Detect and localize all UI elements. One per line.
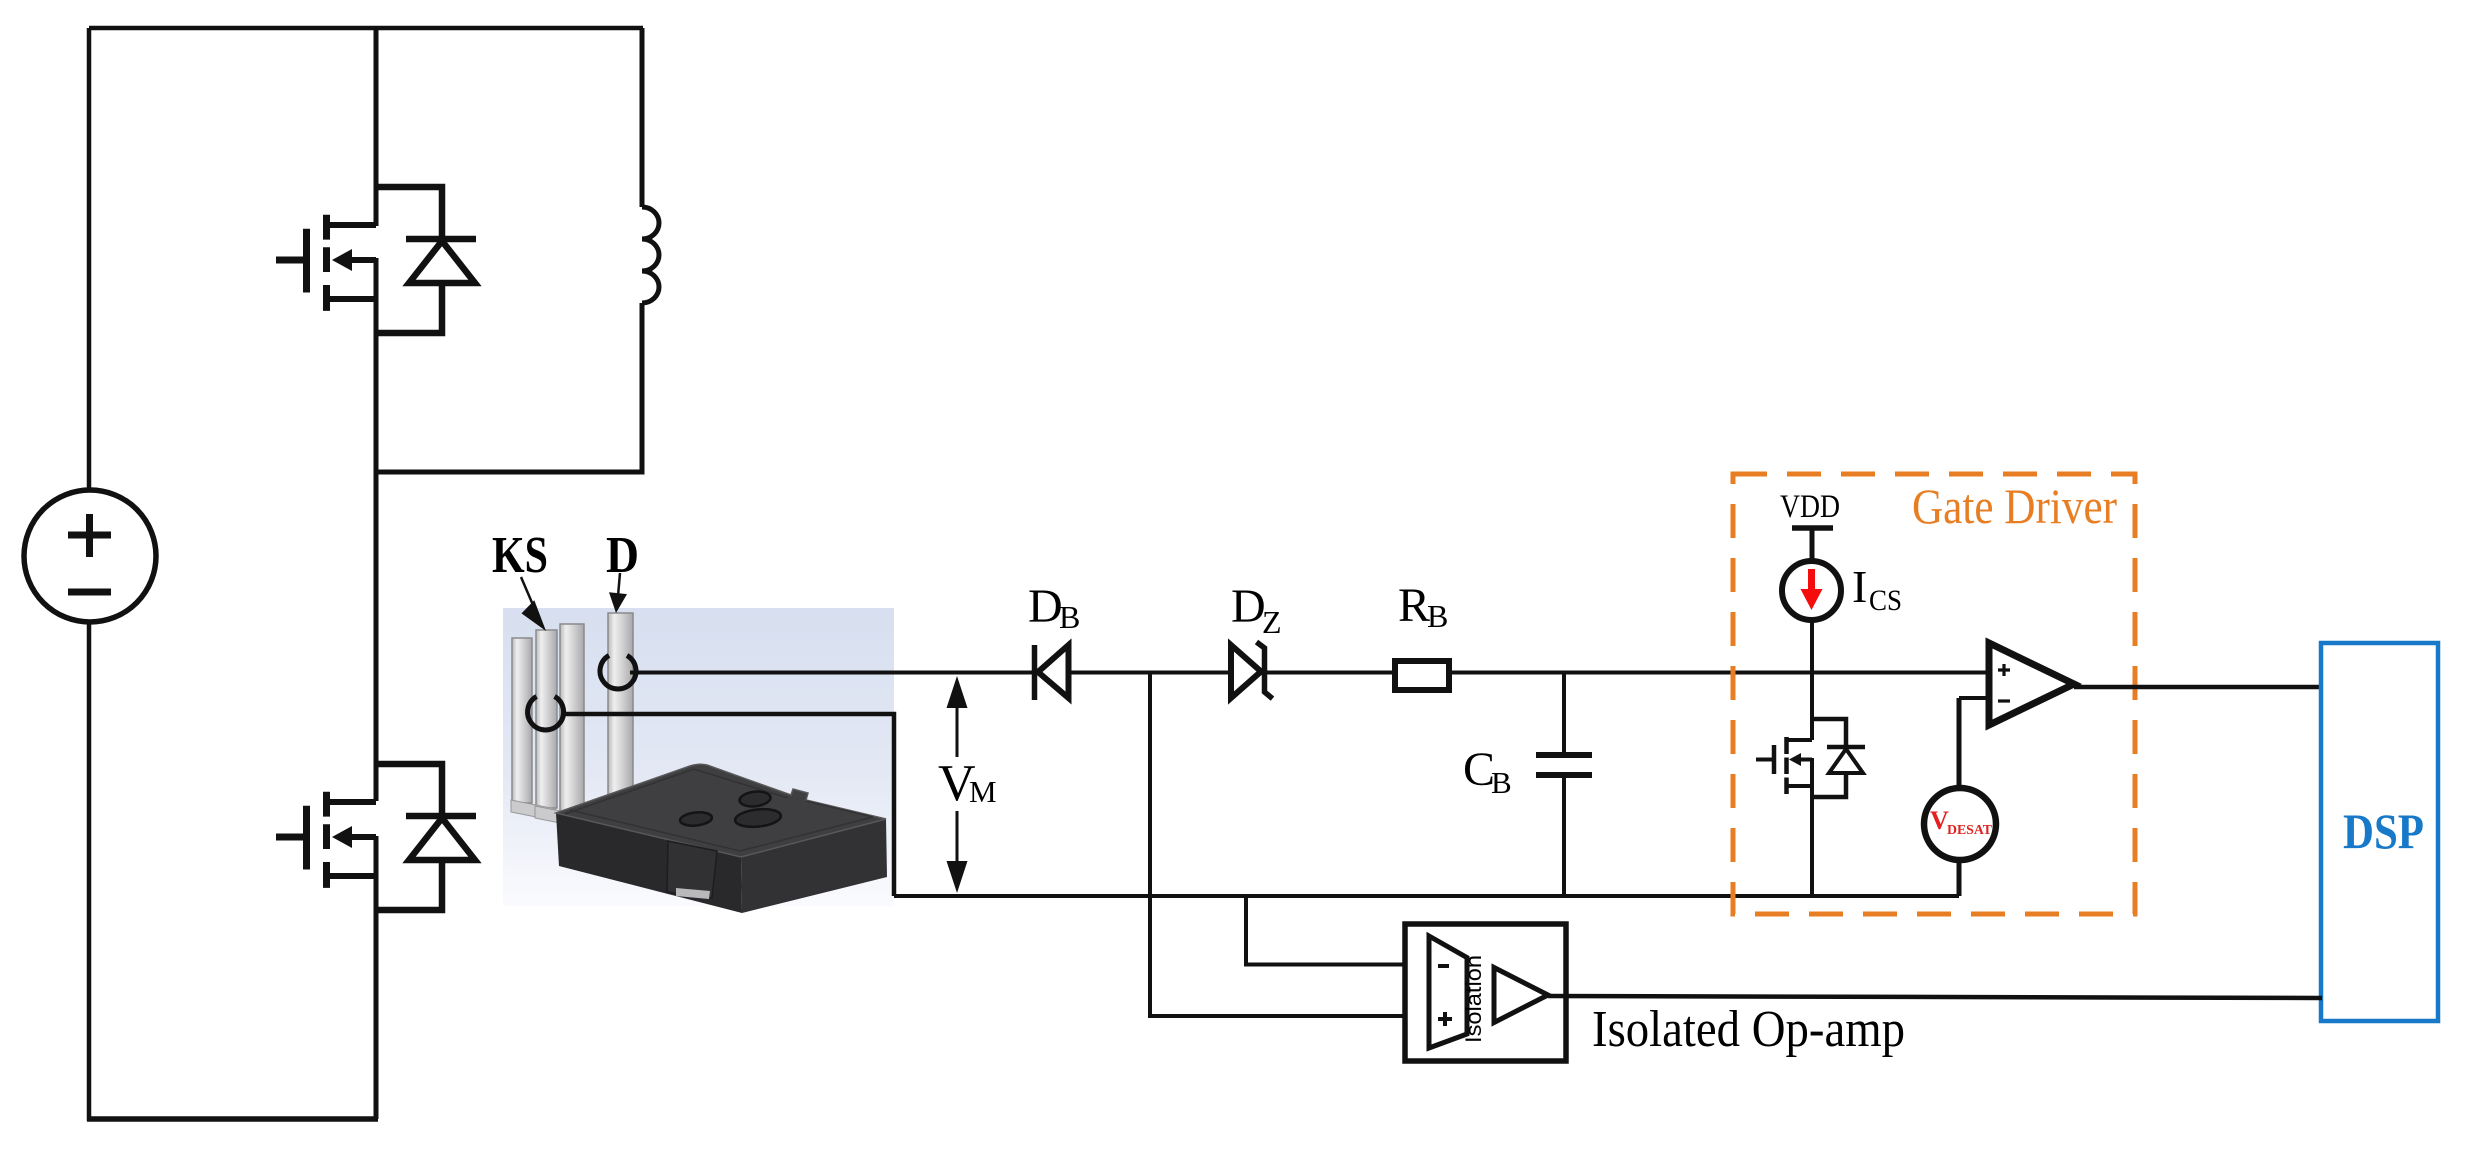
svg-text:B: B (1427, 598, 1448, 634)
svg-text:VDD: VDD (1780, 489, 1840, 525)
svg-text:Isolation: Isolation (1461, 955, 1486, 1043)
svg-text:DSP: DSP (2343, 803, 2424, 859)
svg-text:Z: Z (1262, 604, 1282, 640)
svg-text:I: I (1852, 561, 1867, 612)
svg-text:DESAT: DESAT (1947, 822, 1992, 837)
svg-text:R: R (1398, 579, 1430, 632)
svg-text:Isolated Op-amp: Isolated Op-amp (1592, 1001, 1905, 1058)
svg-text:D: D (1231, 580, 1266, 633)
svg-text:Gate Driver: Gate Driver (1912, 478, 2117, 534)
svg-text:D: D (606, 527, 639, 584)
svg-text:D: D (1028, 580, 1063, 633)
svg-text:M: M (969, 774, 997, 809)
svg-text:B: B (1491, 765, 1512, 800)
svg-text:KS: KS (492, 527, 548, 584)
svg-text:CS: CS (1869, 584, 1902, 617)
svg-text:B: B (1059, 599, 1080, 635)
